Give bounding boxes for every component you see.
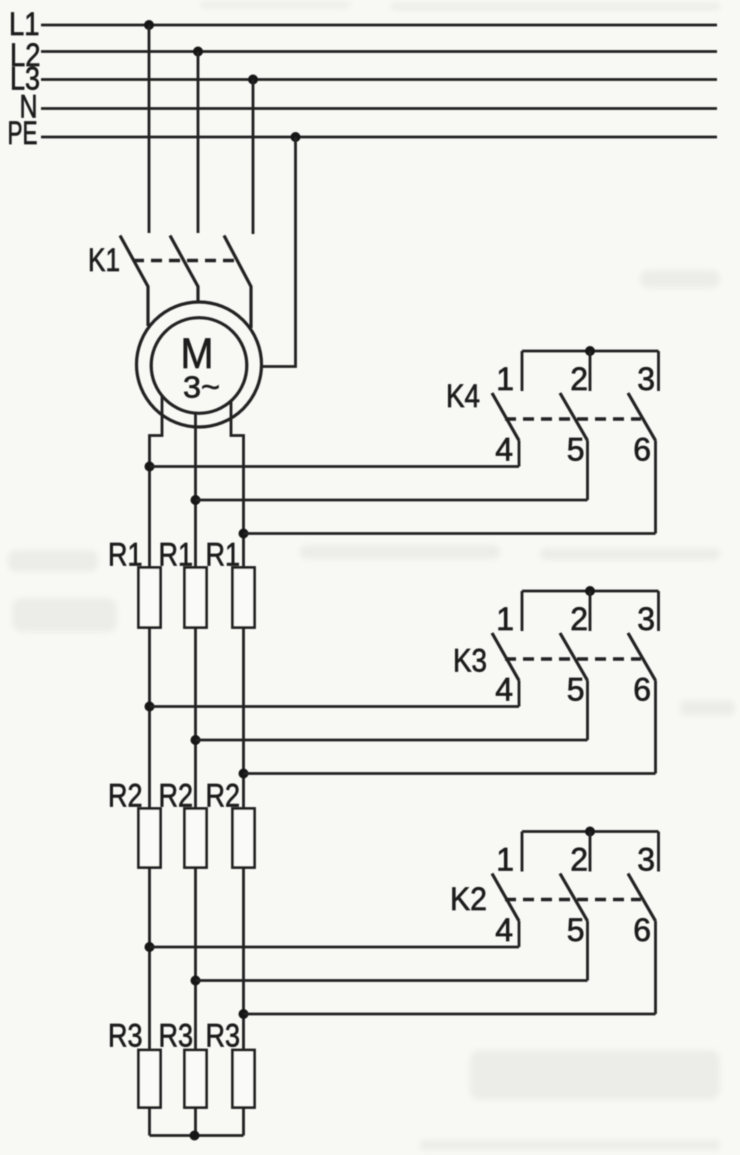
resistor R2 phase1 body: [139, 809, 161, 868]
resistor R2 phase2 body: [185, 809, 207, 868]
contactor K2 pole blade pin5: [560, 874, 588, 922]
wire col2 to star bus: [194, 1108, 197, 1136]
wire row B3 to K2 pin5: [196, 979, 588, 982]
svg-text:3: 3: [637, 842, 655, 878]
wire K3 pin1 stub: [521, 591, 524, 631]
svg-text:1: 1: [496, 361, 514, 397]
svg-text:1: 1: [496, 842, 514, 878]
wire K3 pin4 lead: [518, 681, 521, 707]
wire K3 pin2 stub: [589, 591, 592, 631]
motor M inner circle: [151, 318, 247, 414]
resistor R3 phase1 body: [139, 1050, 161, 1108]
wire row C1 to K4 pin6: [244, 532, 656, 535]
contactor K2 pole blade pin6: [628, 874, 656, 922]
junction PE tap: [291, 132, 301, 142]
contactor K4 common bus: [522, 350, 659, 353]
svg-text:5: 5: [567, 672, 585, 708]
wire L3 drop: [252, 80, 255, 235]
wire K3 pin5 lead: [586, 681, 589, 741]
svg-text:R3: R3: [206, 1018, 241, 1054]
resistor R1 phase3 body: [233, 568, 255, 628]
contactor K3 pole blade pin6: [628, 633, 656, 681]
contactor K3 common bus: [522, 590, 659, 593]
wire K2 pin5 lead: [586, 921, 589, 981]
junction node C2: [239, 769, 249, 779]
svg-text:R3: R3: [108, 1018, 143, 1054]
contactor K1 linkage dashed: [133, 259, 239, 262]
contactor K1 pole 1 blade: [120, 236, 148, 327]
wire col3 R2-R3: [242, 868, 245, 1051]
junction node B3: [191, 976, 201, 986]
svg-text:5: 5: [567, 912, 585, 948]
svg-text:3~: 3~: [183, 370, 220, 405]
contactor K3 pole blade pin4: [492, 633, 519, 681]
wire K4 pin4 lead: [518, 441, 521, 467]
wire PE drop: [263, 137, 296, 367]
junction L1 tap: [144, 20, 154, 30]
junction node A2: [145, 702, 155, 712]
wire motor terminal V: [194, 413, 197, 567]
wire K2 pin6 lead: [654, 921, 657, 1014]
junction L2 tap: [193, 47, 203, 57]
resistor R3 phase2 body: [185, 1050, 207, 1108]
wire col1 R2-R3: [148, 868, 151, 1051]
junction node A3: [145, 942, 155, 952]
resistor R1 phase1 body: [139, 568, 161, 628]
wire row C3 to K2 pin6: [244, 1013, 656, 1016]
wire col3 to star bus: [242, 1108, 245, 1136]
wire K3 pin6 lead: [654, 681, 657, 774]
wire col2 R1-R2: [194, 628, 197, 809]
wire row B2 to K3 pin5: [196, 739, 588, 742]
wire K4 pin5 lead: [586, 441, 589, 501]
resistor R2 phase3 body: [233, 809, 255, 868]
junction K4 bus: [585, 346, 595, 356]
svg-text:K4: K4: [446, 378, 480, 414]
svg-text:4: 4: [495, 432, 513, 468]
wire K4 pin6 lead: [654, 441, 657, 534]
wire col2 R2-R3: [194, 868, 197, 1051]
wire row A1 to K4 pin4: [150, 465, 520, 468]
svg-text:4: 4: [495, 672, 513, 708]
junction K3 bus: [585, 586, 595, 596]
svg-text:1: 1: [496, 601, 514, 637]
wire N rail: [41, 107, 717, 110]
svg-text:6: 6: [633, 432, 651, 468]
wire K4 pin3 stub: [657, 351, 660, 391]
svg-text:K1: K1: [88, 242, 120, 278]
contactor K4 pole blade pin5: [560, 393, 588, 441]
wire K4 pin1 stub: [521, 351, 524, 391]
wire K2 pin3 stub: [657, 832, 660, 872]
contactor K1 pole 2 blade: [170, 236, 198, 302]
junction node C3: [239, 1009, 249, 1019]
wire col1 to star bus: [148, 1108, 151, 1136]
wire row A3 to K2 pin4: [150, 946, 520, 949]
contactor K4 linkage dashed: [505, 417, 641, 420]
svg-text:R3: R3: [159, 1018, 194, 1054]
svg-text:2: 2: [570, 842, 588, 878]
wire star point bus: [150, 1134, 244, 1137]
junction node B1: [191, 495, 201, 505]
contactor K2 linkage dashed: [505, 898, 641, 901]
svg-text:3: 3: [637, 601, 655, 637]
wire row A2 to K3 pin4: [150, 705, 520, 708]
wire K3 pin3 stub: [657, 591, 660, 631]
svg-text:PE: PE: [8, 115, 38, 151]
wire PE rail: [41, 136, 717, 139]
svg-text:K3: K3: [453, 643, 487, 679]
wire motor terminal W jog: [231, 400, 244, 568]
junction node B2: [191, 735, 201, 745]
wire col3 R1-R2: [242, 628, 245, 809]
wire row B1 to K4 pin5: [196, 499, 588, 502]
contactor K1 pole 3 blade: [224, 236, 251, 329]
contactor K2 common bus: [522, 830, 659, 833]
wire L1 rail: [41, 24, 717, 27]
contactor K3 pole blade pin5: [560, 633, 588, 681]
wire motor terminal U jog: [150, 396, 163, 568]
wire K2 pin4 lead: [518, 921, 521, 947]
wire L3 rail: [41, 78, 717, 81]
wire K2 pin2 stub: [589, 832, 592, 872]
svg-text:2: 2: [570, 361, 588, 397]
wire L2 drop: [197, 52, 200, 234]
resistor R3 phase3 body: [233, 1050, 255, 1108]
junction star point: [190, 1131, 200, 1141]
wire row C2 to K3 pin6: [244, 772, 656, 775]
motor M outer circle: [137, 302, 262, 427]
svg-text:6: 6: [633, 912, 651, 948]
junction node A1: [145, 462, 155, 472]
junction L3 tap: [248, 75, 258, 85]
contactor K4 pole blade pin4: [492, 393, 519, 441]
wire L2 rail: [41, 50, 717, 53]
junction K2 bus: [585, 827, 595, 837]
svg-text:3: 3: [637, 361, 655, 397]
wire K4 pin2 stub: [589, 351, 592, 391]
wire L1 drop: [148, 25, 151, 233]
svg-text:6: 6: [633, 672, 651, 708]
svg-text:4: 4: [495, 912, 513, 948]
contactor K3 linkage dashed: [505, 657, 641, 660]
svg-text:2: 2: [570, 601, 588, 637]
contactor K4 pole blade pin6: [628, 393, 656, 441]
wire col1 R1-R2: [148, 628, 151, 809]
svg-text:K2: K2: [450, 881, 487, 917]
contactor K2 pole blade pin4: [492, 874, 519, 922]
resistor R1 phase2 body: [185, 568, 207, 628]
wire K2 pin1 stub: [521, 832, 524, 872]
svg-text:5: 5: [567, 432, 585, 468]
junction node C1: [239, 529, 249, 539]
